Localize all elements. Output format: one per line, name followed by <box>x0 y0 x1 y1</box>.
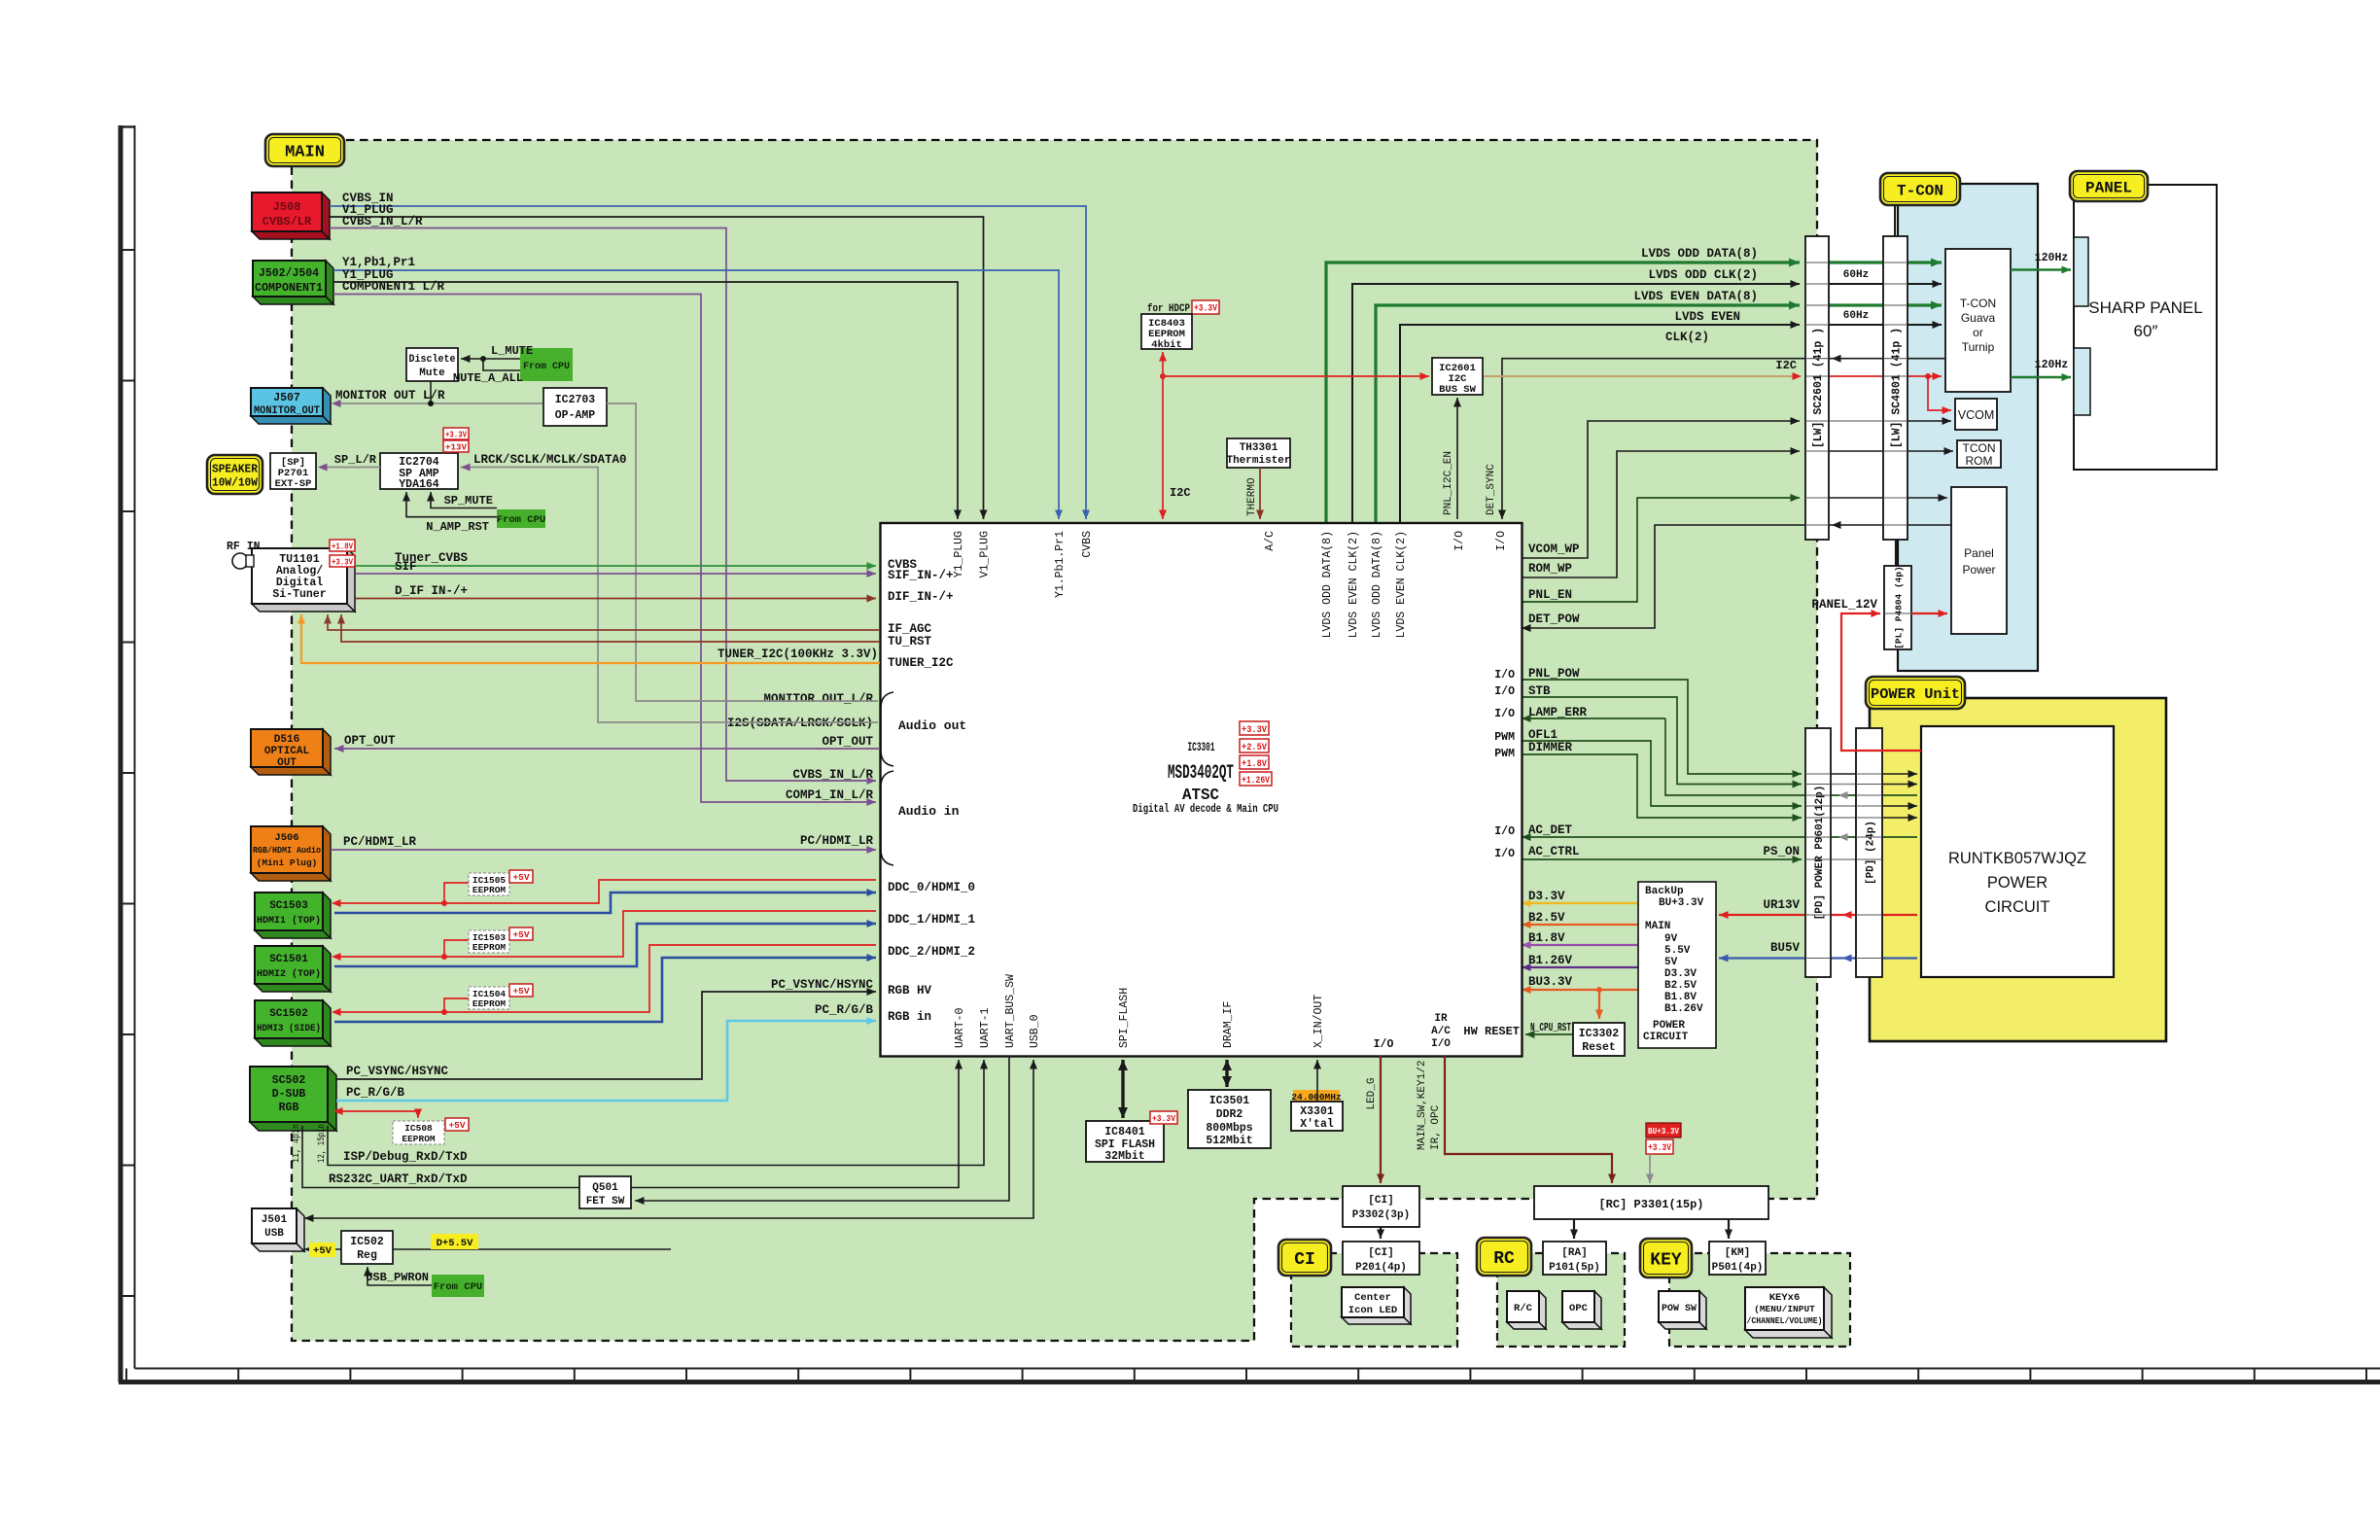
svg-text:+3.3V: +3.3V <box>1242 724 1268 736</box>
svg-text:UART-1: UART-1 <box>979 1007 992 1048</box>
svg-text:BackUp: BackUp <box>1645 886 1684 897</box>
svg-text:J502/J504: J502/J504 <box>259 267 319 280</box>
svg-text:32Mbit: 32Mbit <box>1104 1150 1144 1163</box>
svg-text:+3.3V: +3.3V <box>1152 1113 1175 1124</box>
svg-text:PNL_I2C_EN: PNL_I2C_EN <box>1443 451 1454 515</box>
svg-text:or: or <box>1973 326 1983 339</box>
svg-text:P501(4p): P501(4p) <box>1712 1262 1764 1274</box>
svg-text:D3.3V: D3.3V <box>1664 968 1697 980</box>
svg-text:I2C: I2C <box>1775 359 1797 372</box>
svg-text:POW SW: POW SW <box>1662 1304 1697 1314</box>
svg-text:SHARP PANEL: SHARP PANEL <box>2088 298 2202 317</box>
svg-text:Si-Tuner: Si-Tuner <box>272 588 326 601</box>
svg-text:RGB in: RGB in <box>888 1010 931 1024</box>
svg-text:DDR2: DDR2 <box>1216 1108 1243 1121</box>
svg-text:OPC: OPC <box>1569 1303 1589 1314</box>
svg-text:[CI]: [CI] <box>1368 1195 1393 1207</box>
svg-text:A/C: A/C <box>1431 1026 1451 1037</box>
svg-text:60Hz: 60Hz <box>1843 269 1869 281</box>
svg-text:+3.3V: +3.3V <box>1648 1143 1671 1154</box>
svg-text:MONITOR_OUT: MONITOR_OUT <box>254 405 320 417</box>
svg-text:+5V: +5V <box>512 929 529 940</box>
svg-text:IC502: IC502 <box>350 1236 384 1248</box>
svg-text:Turnip: Turnip <box>1962 340 1995 354</box>
svg-text:RGB: RGB <box>279 1102 299 1114</box>
svg-text:PC/HDMI_LR: PC/HDMI_LR <box>800 834 874 848</box>
svg-text:I/O: I/O <box>1494 848 1515 860</box>
svg-text:PS_ON: PS_ON <box>1763 845 1800 858</box>
svg-text:Guava: Guava <box>1961 311 1996 325</box>
svg-text:RGB HV: RGB HV <box>888 984 932 997</box>
svg-text:[PL] P4804 (4p): [PL] P4804 (4p) <box>1893 566 1904 649</box>
svg-text:/CHANNEL/VOLUME): /CHANNEL/VOLUME) <box>1747 1315 1823 1326</box>
svg-text:J507: J507 <box>273 392 300 404</box>
svg-text:PANEL: PANEL <box>2085 179 2132 196</box>
svg-text:Audio in: Audio in <box>898 804 960 819</box>
svg-text:ISP/Debug_RxD/TxD: ISP/Debug_RxD/TxD <box>343 1150 468 1164</box>
svg-text:PWM: PWM <box>1494 731 1515 744</box>
svg-text:PC_VSYNC/HSYNC: PC_VSYNC/HSYNC <box>346 1065 449 1078</box>
svg-text:OUT: OUT <box>277 757 297 769</box>
svg-text:+1.26V: +1.26V <box>1242 775 1271 787</box>
svg-text:VCOM: VCOM <box>1958 408 1995 422</box>
svg-text:Power: Power <box>1962 563 1995 577</box>
svg-text:X_IN/OUT: X_IN/OUT <box>1312 995 1325 1048</box>
svg-text:LVDS ODD CLK(2): LVDS ODD CLK(2) <box>1648 268 1758 282</box>
svg-text:J501: J501 <box>262 1214 288 1226</box>
svg-text:OPT_OUT: OPT_OUT <box>822 735 873 749</box>
svg-text:Thermister: Thermister <box>1226 455 1290 467</box>
svg-text:T-CON: T-CON <box>1960 297 1996 310</box>
svg-text:LED_G: LED_G <box>1366 1077 1378 1109</box>
svg-text:CVBS_IN_L/R: CVBS_IN_L/R <box>792 768 873 782</box>
svg-text:N_CPU_RST: N_CPU_RST <box>1530 1021 1571 1034</box>
svg-text:T-CON: T-CON <box>1897 182 1943 199</box>
svg-text:+3.3V: +3.3V <box>445 429 467 439</box>
svg-text:IC3302: IC3302 <box>1579 1028 1620 1040</box>
svg-text:KEY: KEY <box>1650 1250 1682 1270</box>
svg-text:IF_AGC: IF_AGC <box>888 622 932 636</box>
svg-text:[RA]: [RA] <box>1561 1247 1587 1259</box>
svg-text:HW RESET: HW RESET <box>1463 1025 1520 1038</box>
svg-text:D-SUB: D-SUB <box>272 1088 306 1101</box>
svg-text:IC508: IC508 <box>404 1123 433 1134</box>
svg-text:SC1501: SC1501 <box>269 954 308 965</box>
svg-text:IC3301: IC3301 <box>1188 741 1215 754</box>
svg-text:[PD] (24p): [PD] (24p) <box>1865 821 1876 885</box>
svg-text:IC3501: IC3501 <box>1209 1095 1250 1107</box>
svg-text:Reg: Reg <box>357 1249 377 1262</box>
svg-text:SC1503: SC1503 <box>269 900 308 912</box>
svg-text:Y1,Pb1,Pr1: Y1,Pb1,Pr1 <box>342 256 415 269</box>
svg-text:KEYx6: KEYx6 <box>1769 1292 1801 1304</box>
svg-text:DDC_1/HDMI_1: DDC_1/HDMI_1 <box>888 913 975 927</box>
svg-text:Y1.Pb1.Pr1: Y1.Pb1.Pr1 <box>1054 531 1067 598</box>
svg-text:TUNER_I2C: TUNER_I2C <box>888 656 954 670</box>
svg-text:MONITOR OUT L/R: MONITOR OUT L/R <box>335 389 445 402</box>
svg-text:LVDS ODD DATA(8): LVDS ODD DATA(8) <box>1641 247 1758 261</box>
svg-text:B1.8V: B1.8V <box>1528 931 1565 945</box>
svg-text:I/O: I/O <box>1494 708 1515 720</box>
svg-text:COMPONENT1: COMPONENT1 <box>255 282 323 295</box>
svg-text:UART_BUS_SW: UART_BUS_SW <box>1004 974 1017 1048</box>
svg-text:TH3301: TH3301 <box>1240 442 1278 454</box>
svg-text:Q501: Q501 <box>592 1182 618 1194</box>
svg-text:AC_DET: AC_DET <box>1528 823 1573 837</box>
svg-text:120Hz: 120Hz <box>2035 359 2069 371</box>
svg-text:EXT-SP: EXT-SP <box>275 478 312 490</box>
svg-text:SC1502: SC1502 <box>269 1008 308 1020</box>
svg-text:LVDS EVEN CLK(2): LVDS EVEN CLK(2) <box>1347 531 1360 638</box>
svg-text:USB_0: USB_0 <box>1029 1014 1041 1048</box>
svg-text:RC: RC <box>1493 1249 1515 1269</box>
svg-text:LAMP_ERR: LAMP_ERR <box>1528 706 1588 719</box>
svg-text:B1.8V: B1.8V <box>1664 992 1697 1003</box>
svg-text:PC/HDMI_LR: PC/HDMI_LR <box>343 835 417 849</box>
svg-text:5.5V: 5.5V <box>1664 945 1691 957</box>
svg-text:POWER: POWER <box>1653 1020 1685 1032</box>
svg-text:V1_PLUG: V1_PLUG <box>979 531 992 577</box>
svg-text:+5V: +5V <box>448 1120 465 1131</box>
svg-text:(Mini Plug): (Mini Plug) <box>257 857 318 868</box>
svg-text:MAIN: MAIN <box>1645 921 1670 932</box>
svg-text:BUS SW: BUS SW <box>1439 384 1477 396</box>
svg-text:D_IF IN-/+: D_IF IN-/+ <box>395 584 468 598</box>
svg-text:LVDS ODD DATA(8): LVDS ODD DATA(8) <box>1371 531 1383 638</box>
svg-text:BU+3.3V: BU+3.3V <box>1648 1126 1679 1137</box>
svg-text:J508: J508 <box>273 200 301 214</box>
svg-text:Center: Center <box>1354 1292 1391 1304</box>
svg-text:Audio out: Audio out <box>898 718 966 733</box>
svg-text:[RC] P3301(15p): [RC] P3301(15p) <box>1598 1198 1703 1211</box>
svg-text:P201(4p): P201(4p) <box>1355 1262 1407 1274</box>
svg-text:MAIN_SW,KEY1/2: MAIN_SW,KEY1/2 <box>1417 1061 1428 1150</box>
svg-text:USB: USB <box>264 1228 284 1240</box>
svg-text:RS232C_UART_RxD/TxD: RS232C_UART_RxD/TxD <box>329 1172 468 1186</box>
svg-text:EEPROM: EEPROM <box>472 885 507 895</box>
svg-text:I/O: I/O <box>1374 1038 1394 1051</box>
svg-text:DET_POW: DET_POW <box>1528 612 1580 626</box>
svg-text:IC2703: IC2703 <box>555 394 596 406</box>
svg-text:9V: 9V <box>1664 933 1678 945</box>
svg-text:N_AMP_RST: N_AMP_RST <box>426 520 489 534</box>
svg-text:SP_L/R: SP_L/R <box>334 453 377 467</box>
svg-text:MUTE_A_ALL: MUTE_A_ALL <box>453 371 523 385</box>
svg-text:D516: D516 <box>274 734 299 746</box>
svg-text:OFL1: OFL1 <box>1528 728 1557 742</box>
svg-text:LVDS EVEN: LVDS EVEN <box>1674 310 1740 324</box>
svg-text:Y1_PLUG: Y1_PLUG <box>953 531 965 577</box>
svg-text:IR: IR <box>1434 1013 1448 1025</box>
svg-text:LVDS EVEN CLK(2): LVDS EVEN CLK(2) <box>1395 531 1408 638</box>
svg-text:EEPROM: EEPROM <box>472 942 507 953</box>
svg-text:Panel: Panel <box>1964 546 1994 560</box>
svg-text:I/O: I/O <box>1494 685 1515 698</box>
svg-text:[CI]: [CI] <box>1368 1247 1393 1259</box>
svg-text:HDMI2 (TOP): HDMI2 (TOP) <box>257 968 321 980</box>
svg-text:IC8401: IC8401 <box>1104 1126 1145 1138</box>
svg-text:OP-AMP: OP-AMP <box>555 409 596 422</box>
svg-text:IR, OPC: IR, OPC <box>1430 1104 1442 1150</box>
svg-text:DIF_IN-/+: DIF_IN-/+ <box>888 590 954 604</box>
svg-text:EEPROM: EEPROM <box>472 998 507 1009</box>
svg-text:CVBS/LR: CVBS/LR <box>262 215 312 228</box>
svg-text:4kbit: 4kbit <box>1151 339 1182 351</box>
svg-text:LVDS EVEN DATA(8): LVDS EVEN DATA(8) <box>1633 290 1758 303</box>
svg-text:I2C: I2C <box>1170 486 1191 500</box>
svg-text:CIRCUIT: CIRCUIT <box>1985 898 2050 916</box>
svg-text:B1.26V: B1.26V <box>1664 1003 1703 1015</box>
svg-text:+5V: +5V <box>512 872 529 883</box>
svg-text:5V: 5V <box>1664 957 1678 968</box>
svg-text:B1.26V: B1.26V <box>1528 954 1573 967</box>
svg-text:RUNTKB057WJQZ: RUNTKB057WJQZ <box>1948 850 2086 867</box>
svg-text:Digital AV decode & Main CPU: Digital AV decode & Main CPU <box>1133 803 1278 816</box>
svg-text:SC502: SC502 <box>272 1074 306 1087</box>
svg-text:+3.3V: +3.3V <box>332 556 353 567</box>
svg-text:X3301: X3301 <box>1300 1105 1334 1118</box>
svg-text:12, 15pin: 12, 15pin <box>316 1124 328 1163</box>
svg-text:J506: J506 <box>274 832 298 844</box>
svg-text:+13V: +13V <box>445 441 467 452</box>
svg-text:From CPU: From CPU <box>497 514 545 526</box>
svg-text:SP_MUTE: SP_MUTE <box>444 494 493 507</box>
svg-text:I/O: I/O <box>1494 669 1515 682</box>
svg-text:HDMI3 (SIDE): HDMI3 (SIDE) <box>257 1023 321 1034</box>
svg-text:P3302(3p): P3302(3p) <box>1352 1209 1410 1221</box>
svg-text:CLK(2): CLK(2) <box>1665 331 1709 344</box>
svg-text:+1.8V: +1.8V <box>1242 758 1268 770</box>
svg-text:DET_SYNC: DET_SYNC <box>1486 464 1497 515</box>
svg-text:VCOM_WP: VCOM_WP <box>1528 542 1580 556</box>
svg-text:CVBS: CVBS <box>1081 531 1094 558</box>
svg-text:I/O: I/O <box>1431 1038 1451 1050</box>
svg-text:+5V: +5V <box>313 1245 332 1257</box>
svg-text:CIRCUIT: CIRCUIT <box>1643 1032 1689 1043</box>
svg-text:Reset: Reset <box>1582 1041 1616 1054</box>
svg-text:UR13V: UR13V <box>1763 898 1800 912</box>
svg-text:FET SW: FET SW <box>586 1196 625 1207</box>
svg-text:From CPU: From CPU <box>523 362 570 372</box>
svg-text:B2.5V: B2.5V <box>1664 980 1697 992</box>
svg-text:120Hz: 120Hz <box>2035 252 2069 264</box>
svg-text:THERMO: THERMO <box>1246 477 1258 516</box>
svg-text:BU3.3V: BU3.3V <box>1528 975 1573 989</box>
svg-text:D+5.5V: D+5.5V <box>437 1238 474 1249</box>
svg-text:L_MUTE: L_MUTE <box>491 344 533 358</box>
svg-text:TU_RST: TU_RST <box>888 635 932 648</box>
svg-text:X'tal: X'tal <box>1300 1118 1334 1131</box>
svg-text:CVBS_IN_L/R: CVBS_IN_L/R <box>342 215 423 228</box>
svg-text:I/O: I/O <box>1494 825 1515 838</box>
svg-text:MONITOR OUT_L/R: MONITOR OUT_L/R <box>763 692 873 706</box>
svg-text:RGB/HDMI Audio: RGB/HDMI Audio <box>253 845 321 856</box>
svg-text:LVDS ODD DATA(8): LVDS ODD DATA(8) <box>1321 531 1334 638</box>
svg-text:I2S(SDATA/LRCK/SCLK): I2S(SDATA/LRCK/SCLK) <box>727 717 873 730</box>
svg-text:B2.5V: B2.5V <box>1528 911 1565 925</box>
svg-text:MAIN: MAIN <box>285 144 325 162</box>
svg-text:800Mbps: 800Mbps <box>1206 1122 1252 1135</box>
svg-text:POWER: POWER <box>1987 874 2047 892</box>
svg-text:TCON: TCON <box>1963 441 1996 455</box>
svg-text:SIF_IN-/+: SIF_IN-/+ <box>888 569 954 582</box>
svg-text:MSD3402QT: MSD3402QT <box>1168 762 1234 785</box>
svg-text:[KM]: [KM] <box>1725 1247 1750 1259</box>
svg-text:PNL_POW: PNL_POW <box>1528 667 1580 681</box>
svg-text:+1.8V: +1.8V <box>332 541 353 551</box>
svg-text:+5V: +5V <box>512 986 529 997</box>
svg-text:PNL_EN: PNL_EN <box>1528 588 1572 602</box>
svg-text:R/C: R/C <box>1514 1303 1533 1314</box>
svg-text:EEPROM: EEPROM <box>402 1134 436 1144</box>
svg-text:(MENU/INPUT: (MENU/INPUT <box>1754 1304 1815 1314</box>
svg-text:CI: CI <box>1294 1250 1315 1270</box>
svg-text:[LW] SC2601 (41p ): [LW] SC2601 (41p ) <box>1812 328 1825 448</box>
svg-text:PANEL_12V: PANEL_12V <box>1811 598 1877 612</box>
svg-text:SPEAKER: SPEAKER <box>212 462 259 475</box>
svg-text:Disclete: Disclete <box>409 354 456 366</box>
svg-text:From CPU: From CPU <box>434 1281 482 1293</box>
svg-text:+3.3V: +3.3V <box>1194 304 1217 315</box>
svg-text:I/O: I/O <box>1453 531 1466 551</box>
svg-text:COMP1_IN_L/R: COMP1_IN_L/R <box>786 788 874 802</box>
svg-text:Icon LED: Icon LED <box>1348 1305 1397 1316</box>
svg-text:60Hz: 60Hz <box>1843 310 1869 322</box>
svg-text:SPI_FLASH: SPI_FLASH <box>1118 988 1131 1048</box>
svg-text:512Mbit: 512Mbit <box>1206 1135 1252 1147</box>
svg-text:DDC_0/HDMI_0: DDC_0/HDMI_0 <box>888 881 975 894</box>
svg-text:11, 4pin: 11, 4pin <box>291 1124 302 1163</box>
svg-text:OPTICAL: OPTICAL <box>264 746 310 757</box>
svg-text:10W/10W: 10W/10W <box>212 475 259 489</box>
svg-text:DDC_2/HDMI_2: DDC_2/HDMI_2 <box>888 945 975 959</box>
svg-text:AC_CTRL: AC_CTRL <box>1528 845 1580 858</box>
svg-text:BU+3.3V: BU+3.3V <box>1659 897 1704 909</box>
svg-text:DRAM_IF: DRAM_IF <box>1222 1001 1235 1048</box>
svg-text:ROM_WP: ROM_WP <box>1528 562 1572 576</box>
svg-text:LRCK/SCLK/MCLK/SDATA0: LRCK/SCLK/MCLK/SDATA0 <box>473 453 627 467</box>
svg-text:COMPONENT1 L/R: COMPONENT1 L/R <box>342 280 445 294</box>
svg-text:STB: STB <box>1528 684 1551 698</box>
svg-text:A/C: A/C <box>1264 531 1277 551</box>
svg-text:USB_PWRON: USB_PWRON <box>366 1271 429 1284</box>
svg-text:TUNER_I2C(100KHz 3.3V): TUNER_I2C(100KHz 3.3V) <box>717 647 878 661</box>
svg-text:YDA164: YDA164 <box>399 478 439 491</box>
svg-text:HDMI1 (TOP): HDMI1 (TOP) <box>257 915 321 927</box>
svg-text:P101(5p): P101(5p) <box>1549 1262 1600 1274</box>
svg-text:D3.3V: D3.3V <box>1528 890 1565 903</box>
svg-text:OPT_OUT: OPT_OUT <box>344 734 396 748</box>
svg-text:ROM: ROM <box>1966 454 1993 468</box>
svg-text:Mute: Mute <box>419 367 445 379</box>
svg-text:[LW] SC4801 (41p ): [LW] SC4801 (41p ) <box>1891 328 1904 448</box>
svg-text:SIF: SIF <box>395 560 417 574</box>
svg-text:BU5V: BU5V <box>1770 941 1801 955</box>
svg-text:PC_VSYNC/HSYNC: PC_VSYNC/HSYNC <box>771 978 874 992</box>
svg-text:POWER Unit: POWER Unit <box>1871 686 1960 703</box>
svg-text:DIMMER: DIMMER <box>1528 741 1573 754</box>
svg-text:PWM: PWM <box>1494 748 1515 760</box>
svg-text:60″: 60″ <box>2134 322 2158 340</box>
svg-text:UART-0: UART-0 <box>954 1007 966 1048</box>
svg-text:+2.5V: +2.5V <box>1242 742 1268 753</box>
svg-text:PC_R/G/B: PC_R/G/B <box>346 1086 405 1100</box>
svg-text:I/O: I/O <box>1495 531 1508 551</box>
svg-text:PC_R/G/B: PC_R/G/B <box>815 1003 874 1017</box>
